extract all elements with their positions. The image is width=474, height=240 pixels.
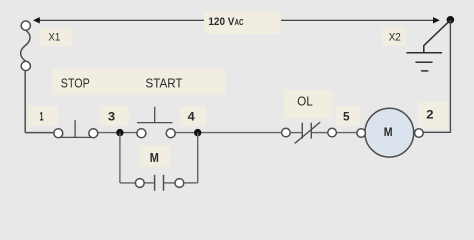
svg-text:5: 5 — [343, 110, 350, 124]
svg-text:X1: X1 — [48, 31, 60, 43]
svg-text:4: 4 — [188, 110, 195, 124]
svg-text:X2: X2 — [389, 32, 401, 44]
svg-text:AC: AC — [235, 18, 244, 27]
svg-text:M: M — [150, 150, 159, 165]
svg-text:1: 1 — [40, 110, 44, 124]
svg-text:2: 2 — [426, 108, 434, 122]
svg-text:M: M — [384, 127, 393, 139]
svg-text:3: 3 — [108, 110, 116, 124]
svg-text:START: START — [146, 76, 183, 90]
svg-text:OL: OL — [297, 94, 313, 109]
svg-text:120 V: 120 V — [208, 16, 235, 28]
svg-text:STOP: STOP — [61, 76, 90, 90]
